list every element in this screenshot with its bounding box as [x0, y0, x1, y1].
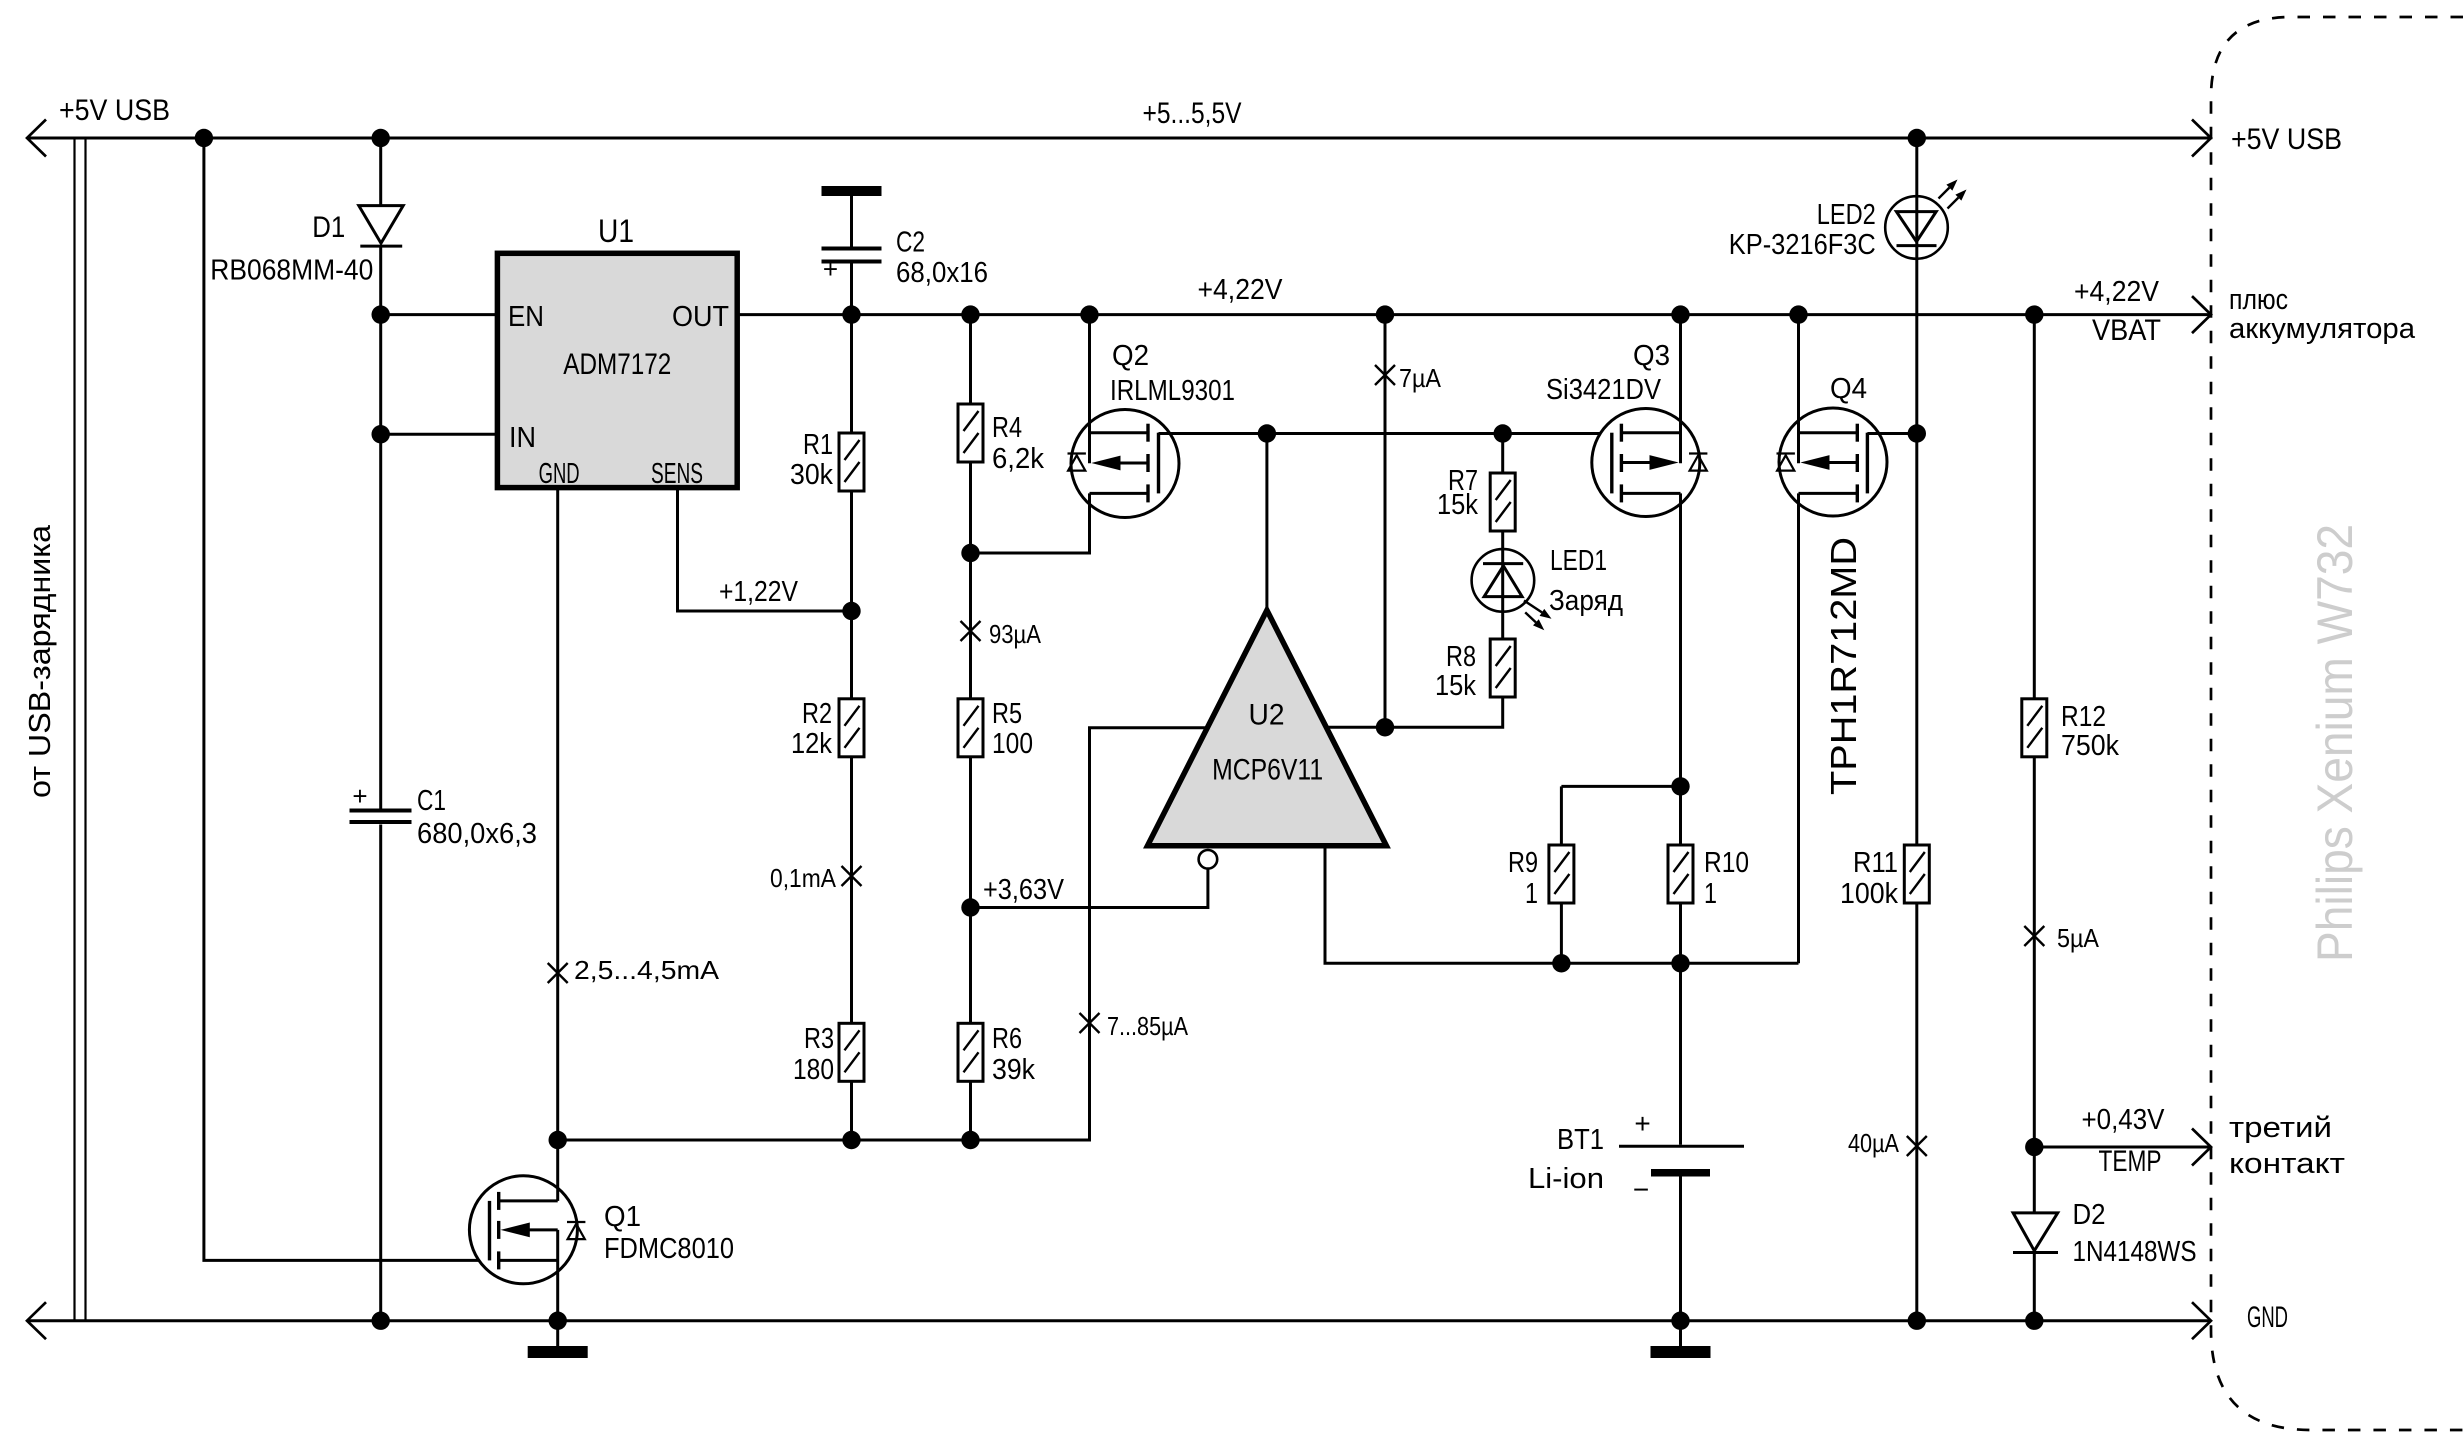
svg-text:+4,22V: +4,22V — [2074, 276, 2160, 308]
op-amp U2 MCP6V11 — [1148, 610, 1387, 846]
svg-text:7...85µA: 7...85µA — [1107, 1011, 1189, 1041]
svg-text:третий: третий — [2229, 1112, 2332, 1144]
wire D1 anode from top bus — [379, 138, 382, 206]
wire GND bottom bus — [27, 1319, 2211, 1322]
svg-text:U1: U1 — [598, 213, 634, 249]
node arrow right +5V USB — [2192, 120, 2211, 157]
resistor R11 100k — [1904, 845, 1929, 903]
svg-text:R1: R1 — [803, 429, 833, 461]
wire BT1 positive lead — [1679, 963, 1682, 1145]
node Q4 gate / R11 junction — [1908, 424, 1926, 442]
wire R2 top lead — [850, 611, 853, 699]
svg-text:KP-3216F3C: KP-3216F3C — [1729, 229, 1876, 261]
svg-text:1: 1 — [1525, 878, 1538, 910]
svg-text:Si3421DV: Si3421DV — [1546, 374, 1662, 406]
svg-text:SENS: SENS — [651, 458, 703, 490]
svg-text:TPH1R712MD: TPH1R712MD — [1823, 537, 1864, 795]
node measurement 7uA — [1375, 365, 1395, 385]
node R9 R10 junction — [1671, 777, 1689, 795]
svg-text:C1: C1 — [417, 785, 446, 817]
resistor R1 30k — [839, 433, 864, 491]
wire BT1 negative lead to GND — [1679, 1177, 1682, 1321]
node R6 bottom junction — [961, 1131, 979, 1149]
ground symbol below BT1 — [1679, 1321, 1682, 1346]
node +1,22V junction — [842, 602, 860, 620]
resistor R5 100 — [958, 699, 983, 757]
Q3 body arrow — [1621, 461, 1652, 464]
wire U1 SENS pin to R1/R2 divider — [678, 488, 852, 611]
svg-text:+5V USB: +5V USB — [59, 94, 170, 127]
svg-text:C2: C2 — [896, 227, 925, 259]
svg-text:ADM7172: ADM7172 — [563, 348, 671, 381]
wire Q4 drain lead down to sense row — [1797, 493, 1800, 963]
wire +4,22V VBAT rail — [737, 313, 2211, 316]
svg-text:IN: IN — [509, 422, 536, 454]
transistor Q4 TPH1R712MD — [1779, 408, 1887, 516]
wire R11 top lead — [1915, 434, 1918, 846]
svg-text:15k: 15k — [1435, 670, 1476, 702]
svg-text:Philips Xenium W732: Philips Xenium W732 — [2307, 524, 2363, 962]
wire R4 bottom to Q2 drain node — [969, 462, 972, 553]
wire R2 bottom to R3 — [850, 757, 853, 1024]
wire U1 GND pin down to bottom row — [556, 488, 559, 1140]
resistor R9 1 — [1549, 845, 1574, 903]
svg-text:R9: R9 — [1508, 847, 1538, 879]
node arrow left +5V USB — [27, 120, 46, 157]
wire R6 top lead — [969, 908, 972, 1024]
svg-text:15k: 15k — [1437, 489, 1478, 521]
svg-text:аккумулятора: аккумулятора — [2229, 313, 2416, 345]
node VBAT / Q3 junction — [1671, 305, 1689, 323]
node arrow right GND — [2192, 1302, 2211, 1339]
svg-text:D1: D1 — [312, 211, 345, 244]
ground symbol above C2 — [822, 186, 882, 196]
node measurement 0,1mA — [842, 866, 862, 886]
svg-text:12k: 12k — [791, 728, 832, 760]
resistor R6 39k — [958, 1023, 983, 1081]
node GND / D2 junction — [2025, 1312, 2043, 1330]
node U2 supply junction — [1376, 718, 1394, 736]
wire U2 positive supply row — [1326, 726, 1502, 729]
wire Q4 source lead from VBAT — [1797, 315, 1800, 464]
svg-text:+5...5,5V: +5...5,5V — [1143, 97, 1242, 130]
svg-text:OUT: OUT — [672, 301, 729, 333]
svg-text:Q2: Q2 — [1112, 340, 1149, 372]
node TEMP junction — [2025, 1138, 2043, 1156]
svg-text:−: − — [1633, 1174, 1649, 1205]
resistor R2 12k — [839, 699, 864, 757]
node Q1 drain junction — [549, 1131, 567, 1149]
capacitor C2 68,0x16 — [850, 196, 853, 247]
svg-text:IRLML9301: IRLML9301 — [1110, 375, 1235, 407]
Q1 body arrow — [527, 1228, 558, 1231]
LED LED2 KP-3216F3C — [1885, 196, 1948, 259]
wire EN pin — [381, 313, 498, 316]
Q2 body diode glyph — [1068, 452, 1086, 454]
resistor R7 15k — [1490, 473, 1515, 531]
svg-text:+4,22V: +4,22V — [1198, 274, 1284, 306]
wire R6 bottom lead — [969, 1081, 972, 1140]
svg-text:R6: R6 — [992, 1023, 1022, 1055]
svg-text:1N4148WS: 1N4148WS — [2073, 1236, 2197, 1268]
resistor R10 1 — [1668, 845, 1693, 903]
node measurement 5uA — [2024, 926, 2044, 946]
capacitor C1 680,0x6,3 — [350, 809, 412, 813]
node arrow left GND — [27, 1302, 46, 1339]
svg-text:39k: 39k — [992, 1054, 1035, 1086]
svg-text:40µA: 40µA — [1848, 1128, 1900, 1158]
svg-text:GND: GND — [2247, 1301, 2288, 1334]
wire USB connector double line — [73, 138, 75, 1321]
svg-text:+0,43V: +0,43V — [2082, 1104, 2166, 1136]
wire Q2 source lead from VBAT — [1088, 315, 1091, 464]
node R3 bottom junction — [842, 1131, 860, 1149]
svg-text:U2: U2 — [1249, 699, 1285, 732]
node IN junction — [372, 425, 390, 443]
node top bus / D1 junction — [372, 129, 390, 147]
svg-text:R10: R10 — [1704, 847, 1749, 879]
LED LED1 Заряд — [1472, 549, 1535, 612]
svg-text:Q3: Q3 — [1633, 340, 1670, 372]
wire R9 bottom — [1560, 903, 1563, 963]
wire R3 bottom lead — [850, 1081, 853, 1140]
svg-text:6,2k: 6,2k — [992, 443, 1044, 475]
svg-text:+5V USB: +5V USB — [2231, 123, 2342, 156]
svg-text:R11: R11 — [1853, 847, 1898, 879]
wire TEMP output — [2034, 1146, 2211, 1149]
svg-text:от USB-зарядника: от USB-зарядника — [22, 524, 57, 798]
svg-text:0,1mA: 0,1mA — [770, 863, 837, 893]
diode D2 1N4148WS — [2033, 1147, 2036, 1213]
node top bus / LED2 junction — [1908, 129, 1926, 147]
wire R12 bottom to TEMP node — [2033, 757, 2036, 1147]
diode D1 — [359, 206, 403, 244]
svg-text:контакт: контакт — [2229, 1148, 2345, 1180]
node EN junction — [372, 305, 390, 323]
node GND / Q1 source junction — [549, 1312, 567, 1330]
node R10 bottom / BT1 junction — [1671, 954, 1689, 972]
node VBAT / Q2 source junction — [1080, 305, 1098, 323]
wire R5 bottom to +3,63V node — [969, 757, 972, 908]
node GND / BT1 junction — [1671, 1312, 1689, 1330]
wire LED2 cathode down across VBAT to Q4 gate node — [1915, 259, 1918, 434]
svg-text:плюс: плюс — [2229, 284, 2288, 316]
node Q2 drain / R4 R5 junction — [961, 544, 979, 562]
wire Q3 drain lead from VBAT — [1679, 315, 1682, 464]
node measurement 7...85uA — [1080, 1013, 1100, 1033]
wire R11 bottom to GND — [1915, 903, 1918, 1321]
svg-text:TEMP: TEMP — [2099, 1145, 2162, 1178]
svg-text:R12: R12 — [2061, 701, 2106, 733]
svg-text:7µA: 7µA — [1399, 363, 1442, 393]
svg-text:R8: R8 — [1446, 641, 1476, 673]
wire R8 bottom to supply row — [1501, 697, 1504, 727]
wire D2 cathode to GND — [2033, 1253, 2036, 1321]
transistor Q2 IRLML9301 — [1071, 410, 1179, 518]
svg-text:EN: EN — [508, 301, 544, 333]
node GND / R11 junction — [1908, 1312, 1926, 1330]
node arrow right VBAT — [2192, 296, 2211, 333]
svg-text:Заряд: Заряд — [1549, 585, 1623, 617]
wire R1 bottom to +1,22V node — [850, 491, 853, 611]
wire Q2 drain lead — [971, 493, 1090, 553]
svg-text:GND: GND — [539, 458, 580, 490]
svg-text:BT1: BT1 — [1557, 1124, 1604, 1156]
wire R5 top lead — [969, 553, 972, 699]
node VBAT / 7uA junction — [1376, 305, 1394, 323]
op-amp U1 ADM7172 LDO regulator box — [497, 253, 737, 487]
dashed enclosure: Philips Xenium W732 phone boundary — [2211, 17, 2463, 1430]
svg-text:R3: R3 — [804, 1023, 834, 1055]
wire R12 top lead — [2033, 315, 2036, 699]
Q1 body diode glyph — [567, 1221, 585, 1223]
wire LED2 anode from top bus — [1915, 138, 1918, 196]
ground symbol below Q1 — [556, 1321, 559, 1346]
node top bus / Q1 gate feeder junction — [195, 129, 213, 147]
wire Q4 gate to LED2 column — [1867, 432, 1916, 435]
wire IN pin — [381, 433, 498, 436]
wire top bus to Q1 gate — [204, 138, 490, 1260]
svg-text:Q1: Q1 — [604, 1201, 641, 1233]
node arrow right TEMP — [2192, 1129, 2211, 1166]
wire R9 top lead — [1560, 786, 1563, 845]
wire Q1 source/body to GND — [556, 1230, 559, 1321]
svg-text:LED1: LED1 — [1550, 545, 1607, 577]
Q4 body diode glyph — [1777, 452, 1795, 454]
wire R7 to LED1 — [1501, 531, 1504, 549]
wire R4 top lead — [969, 315, 972, 404]
svg-text:68,0x16: 68,0x16 — [896, 257, 988, 289]
wire R10 bottom — [1679, 903, 1682, 963]
svg-text:750k: 750k — [2061, 730, 2119, 762]
svg-text:180: 180 — [793, 1054, 834, 1086]
resistor R4 6,2k — [958, 404, 983, 462]
svg-text:5µA: 5µA — [2057, 923, 2100, 953]
transistor Q3 Si3421DV — [1592, 409, 1700, 517]
svg-text:R5: R5 — [992, 698, 1022, 730]
node measurement 40uA — [1907, 1136, 1927, 1156]
node +3,63V junction — [961, 898, 979, 916]
svg-text:Q4: Q4 — [1830, 373, 1867, 405]
svg-text:FDMC8010: FDMC8010 — [604, 1233, 734, 1265]
wire +3,63V row to U2 bubble — [971, 869, 1208, 908]
svg-text:R4: R4 — [992, 412, 1022, 444]
wire Q1 drain lead — [556, 1140, 559, 1201]
svg-text:+3,63V: +3,63V — [983, 874, 1065, 906]
node measurement 2,5...4,5mA — [548, 963, 568, 983]
transistor Q1 FDMC8010 — [469, 1176, 577, 1284]
svg-text:+1,22V: +1,22V — [719, 576, 799, 608]
node VBAT / R12 junction — [2025, 305, 2043, 323]
node R9 bottom junction — [1552, 954, 1570, 972]
svg-text:LED2: LED2 — [1817, 199, 1876, 231]
resistor R12 750k — [2022, 699, 2047, 757]
Q3 body diode glyph — [1689, 452, 1707, 454]
svg-text:+: + — [823, 254, 838, 284]
svg-text:2,5...4,5mA: 2,5...4,5mA — [574, 955, 720, 985]
svg-text:93µA: 93µA — [989, 619, 1042, 649]
wire +5V USB top bus — [27, 137, 2211, 140]
node U2 output junction — [1258, 424, 1276, 442]
svg-text:30k: 30k — [790, 459, 833, 491]
svg-text:D2: D2 — [2073, 1199, 2106, 1231]
wire LED1 to R8 — [1501, 612, 1504, 639]
wire gate row Q2-Q3 / U2 output — [1159, 432, 1612, 435]
battery BT1 Li-ion — [1619, 1145, 1744, 1148]
node VBAT / Q4 junction — [1789, 305, 1807, 323]
node R7 top junction — [1494, 424, 1512, 442]
resistor R3 180 — [839, 1023, 864, 1081]
wire R1 top lead — [850, 315, 853, 433]
wire R7 top lead — [1501, 434, 1504, 474]
node VBAT / R4 junction — [961, 305, 979, 323]
wire 7uA branch VBAT to U2 supply row — [1384, 315, 1387, 728]
wire Q3 source lead down — [1679, 493, 1682, 845]
wire bottom row Q1 drain to U2 negative supply — [558, 728, 1208, 1140]
node measurement 93uA — [961, 621, 981, 641]
wire R9 branch row — [1561, 785, 1680, 788]
svg-text:VBAT: VBAT — [2092, 314, 2161, 347]
Q2 body arrow — [1118, 462, 1148, 465]
svg-text:+: + — [1634, 1108, 1650, 1139]
wire U2 sense input down — [1325, 846, 1799, 964]
resistor R8 15k — [1490, 639, 1515, 697]
node GND bus / C1 junction — [372, 1312, 390, 1330]
U2 inverting input bubble — [1199, 850, 1218, 869]
svg-text:R2: R2 — [802, 698, 832, 730]
svg-text:100: 100 — [992, 728, 1033, 760]
svg-text:100k: 100k — [1840, 878, 1898, 910]
svg-text:680,0x6,3: 680,0x6,3 — [417, 818, 537, 850]
svg-text:MCP6V11: MCP6V11 — [1212, 754, 1323, 787]
svg-text:RB068MM-40: RB068MM-40 — [210, 254, 373, 286]
wire D1 cathode down to C1 and GND — [379, 246, 382, 809]
wire U2 output to apex — [1265, 434, 1268, 612]
Q4 body arrow — [1827, 461, 1857, 464]
svg-text:+: + — [352, 781, 367, 811]
svg-text:1: 1 — [1704, 878, 1717, 910]
node VBAT / R1 C2 junction — [842, 305, 860, 323]
svg-text:Li-ion: Li-ion — [1528, 1163, 1604, 1195]
